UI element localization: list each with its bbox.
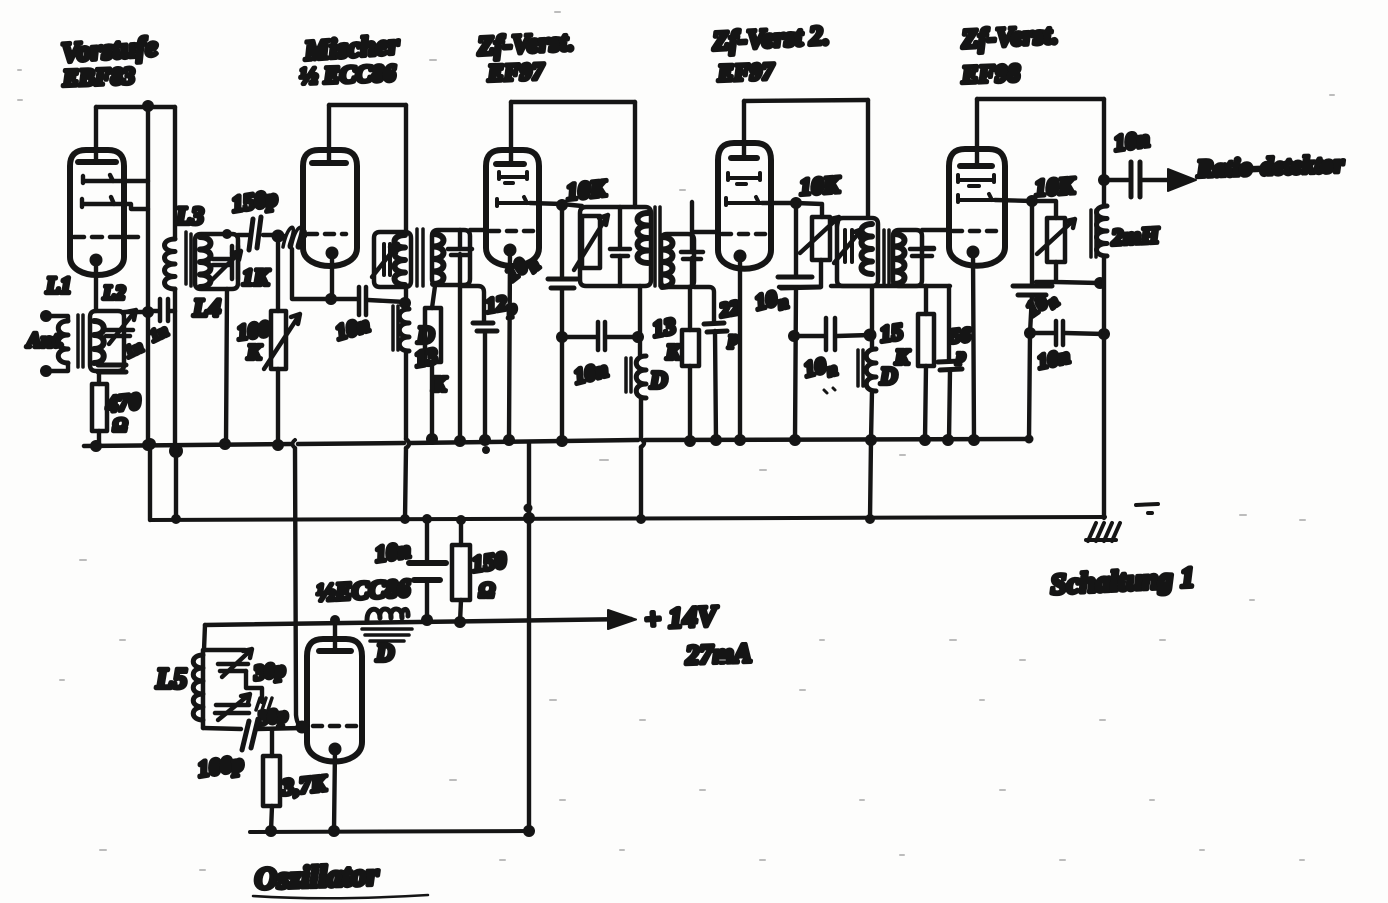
node 10n row left junction V5 [1024,327,1036,339]
V1 top supply wire [96,105,175,109]
wire screen bypass lower V5 [1030,295,1032,333]
V2 plate bar [312,160,346,166]
node IFT2 bottom 10n junction [638,336,640,338]
node V4 cathode bus junction [734,434,746,446]
wire IFT2 primary bottom [638,286,642,356]
node 10n row right junction V5 [1098,328,1110,340]
wire osc ground drop x529 [527,443,531,831]
capacitor 10n output plates [1131,162,1140,197]
node 10n row right junction V4 [864,329,877,342]
svg-text:Zf-Verst 2.: Zf-Verst 2. [711,20,830,56]
grid stopper coil squiggle [283,227,305,248]
node bus junction x176 big [169,444,183,458]
IFT2 primary box [580,207,651,286]
resistor 13K-2 [682,330,699,366]
ink dots under label [824,388,835,393]
svg-text:150p: 150p [230,185,279,217]
wire antenna lower lead [46,363,68,371]
node L4 box top [222,229,232,239]
IFT2 primary trimmer plates [610,249,630,256]
wire 10n row [562,335,638,339]
svg-text:L5: L5 [155,664,187,695]
antenna terminal upper [40,310,52,322]
node link x405 bus2 [400,514,410,524]
wire V1 cathode down [94,260,98,311]
IFT2 primary coil [638,213,649,263]
V3 grid3 marks [497,197,530,206]
V1 diode plate 2 [82,197,114,207]
V5 grid2 marks [958,175,994,186]
node 10n row left junction V4 [788,330,800,342]
wire diode 1 to bus [113,179,148,183]
svg-text:Zf-Verst.: Zf-Verst. [476,26,575,61]
capacitor 10n osc feed [425,519,429,561]
wire hop over bus1 x641 [641,439,644,447]
V4 cathode dot [734,250,747,263]
svg-text:1K: 1K [242,265,271,290]
node screen junction V4 [790,197,802,209]
capacitor 10n osc plates [409,563,446,580]
V2 cathode dashed line [308,232,346,237]
tube V3 EF97 envelope [486,150,539,266]
node secondary bottom bus junction [454,435,466,447]
node 10n osc rail junction [421,614,433,626]
V4 plate bar [731,155,757,161]
choke D3 [866,349,876,391]
capacitor 10n screen V3 plates [548,279,577,288]
resistor 3.7K [263,756,280,806]
wire cap to resistor [97,372,101,384]
IFT2 secondary cap plates [681,252,703,259]
V2 cathode dot [326,247,339,260]
wire bus1 to bus2 x641 [639,447,643,519]
grid input wire from L4 [238,233,275,237]
V4 cathode dashed line [722,232,766,237]
svg-text:13: 13 [413,343,440,372]
wire antenna upper lead [46,316,68,321]
IFT1 secondary box [432,230,470,285]
node 3.7K bottom junction [265,825,277,837]
node L4 bus junction [219,438,231,450]
wire anode line x175 upper [173,107,177,239]
svg-text:Oszillator: Oszillator [254,857,380,896]
svg-text:K: K [894,345,911,369]
wire resistor 470 to bus [97,431,101,446]
node 56p bus junction [942,434,954,446]
V1 cathode dot [90,254,103,267]
svg-text:10K: 10K [799,172,843,201]
trimmer 30p-1 plates [218,664,248,671]
wire 10n row V4 [794,335,870,336]
wire IFT1 secondary bottom to bus [458,285,462,441]
wire choke D3 drop [870,286,874,348]
tube V4 EF97 envelope [718,143,771,269]
inductor L1 [58,321,68,363]
choke D osc on rail [367,609,408,620]
wire screen bypass drop [560,205,564,278]
IFT3 primary box [837,218,878,286]
V6 anode lead [333,620,337,651]
V5 cathode dashed line [953,229,999,234]
svg-text:27mA: 27mA [684,638,752,670]
V3 cathode dashed line [490,229,534,234]
wire 13K feed [432,286,435,308]
choke D mischer core bars [393,306,398,350]
wire bus1 to bus2 x871 [870,440,871,519]
capacitor 10n mischer plates [359,287,366,315]
wire diode bus x148 vertical [146,106,150,444]
V3 anode lead [509,102,513,164]
node 12p below-bus dot [482,446,490,454]
V4 grid3 marks [726,197,762,205]
wire 13K-2 to bus [688,366,692,442]
output line x1104 lower [1102,334,1106,518]
wire screen bypass drop V5 [1030,201,1034,285]
IFT2 primary trimmer stub [618,207,622,286]
resistor 10K V3 [582,216,600,268]
node grid row junction [142,306,154,318]
rail corner to L5 [204,625,205,650]
node link x870 bus2 [865,514,875,524]
wire 56p feed [947,286,951,360]
wire IFT1 primary bottom [404,287,408,308]
capacitor 1n (to anode line) plates [160,299,168,321]
svg-text:30p: 30p [256,704,290,730]
V6 cathode dot [329,743,342,756]
IFT3 secondary cap stub [922,246,934,250]
choke D2 core bars [626,358,631,392]
output line x1104 upper [1102,99,1106,206]
svg-text:D: D [649,368,667,394]
wire box bottom to 12p [460,286,484,322]
wire bus1-bus2 link x176 [174,446,178,519]
svg-text:EF97: EF97 [486,59,545,87]
node 15K bus junction [919,434,931,446]
svg-text:10n: 10n [1021,284,1062,324]
wire 3.7K to bottom [271,806,272,831]
tube V6 ECC86 osc envelope [307,639,362,762]
wire hop over bus1 x406 [406,439,409,448]
V3 grid2 marks [499,172,527,183]
wire cathode row to cap [331,299,405,302]
IFT1 primary coil [395,235,406,285]
svg-text:½ ECC86: ½ ECC86 [299,61,396,90]
IFT1 primary trimmer arrow [372,244,398,277]
svg-text:Vorstufe: Vorstufe [60,31,158,69]
svg-text:K: K [246,340,263,364]
capacitor 100p plates [242,719,258,750]
node x529 bottom junction [523,825,535,837]
IFT2 core bars [655,207,660,286]
svg-text:L4: L4 [192,295,221,322]
node link x641 bus2 [636,514,646,524]
wire 12p to bus [483,331,487,441]
svg-text:D: D [375,640,394,667]
node 12p bus junction [479,434,491,446]
wire 13K-2 feed [688,287,692,330]
wire choke D2 to bus1 [639,398,643,439]
wire hop over bus1 x294 [293,440,296,448]
wire 15K feed [924,286,928,314]
svg-text:470: 470 [104,388,142,417]
IFT3 secondary cap plates [910,249,934,256]
V1 anode lead wire [94,107,98,162]
wire 15K to bus [925,366,926,440]
wire V2 cathode down [330,253,334,299]
capacitor 10n screen V4 plates [778,277,820,288]
variable capacitor arrow [109,310,136,344]
IFT3 primary coil [862,224,873,274]
svg-text:Ratio-detektor: Ratio-detektor [1195,151,1344,183]
V5 top supply wire [977,97,1104,101]
L1/L2 core bars [78,315,83,367]
wire IFT bottom rail [831,284,950,288]
choke D3 core bars [858,350,863,386]
node link x150 top [144,438,156,450]
osc tank box L5 [203,650,245,728]
wire bus2 ground line [150,517,1105,520]
wire osc grid row [203,728,302,729]
svg-text:30p: 30p [251,657,287,685]
L4 trimmer plates [213,259,229,265]
wire anode drop x406 [404,105,408,232]
V5 grid3 marks [958,194,995,202]
trimmer 30p-2 plates [215,705,249,713]
node 13K-2 bus junction [684,435,696,447]
Oszillator underline [253,895,428,898]
V1 diode plate 1 [83,175,113,183]
IFT1 primary box [374,232,411,287]
wire screen bypass to bus [560,288,564,441]
V3 plate bar [496,161,524,167]
choke D2 [636,356,646,398]
node 10n row left junction [556,331,568,343]
capacitor 10n coupling V3 plates [598,322,605,350]
capacitor 12p plates [473,323,497,331]
tube V5 EF98 envelope [949,149,1005,266]
wire V5 screen out [995,200,1056,218]
svg-text:10n: 10n [801,350,839,386]
V4 anode lead [742,101,746,158]
node screen junction V5 [1026,195,1038,207]
wire box bottom to 22p [694,287,714,322]
svg-text:10K: 10K [565,176,609,206]
IFT2 secondary cap stub [690,202,694,287]
capacitor 10n coupling V5 plates [1056,321,1063,345]
wire anode line x175 lower [173,289,177,446]
svg-text:Ω: Ω [113,415,127,436]
V4 top supply wire [744,100,868,101]
wire bus1 AGC line [84,439,1029,446]
node link x176 bus2 [171,514,181,524]
IFT1 core bars [417,229,423,286]
rail arrow head [608,610,636,629]
resistor 470 Ohm [92,384,107,431]
V6 plate bar [319,648,351,654]
capacitor 10n screen V5 plates [1013,286,1052,295]
svg-text:10n: 10n [1112,126,1151,156]
node 150 rail junction [454,616,466,628]
svg-text:2mH: 2mH [1110,222,1161,250]
wire 1n to anode line [148,309,175,313]
resistor 100K [271,311,286,369]
IFT3 primary trimmer bars [845,230,852,262]
capacitor 10n coupling V4 plates [826,318,835,350]
resistor 10K V5 arrow [1037,219,1075,254]
wire V4 screen out [762,203,822,217]
node osc grid junction [296,721,309,734]
output line x1104 middle [1102,258,1106,334]
wire diode 2 to bus [114,204,148,209]
svg-text:EBF83: EBF83 [61,63,135,92]
wire V4 cathode to bus [738,256,742,441]
wire squiggle to tube [278,234,305,238]
IFT2 secondary coil [662,237,673,287]
variable capacitor C-tune plates [103,330,133,336]
wire V3 cathode to bus [509,250,510,440]
V2 anode lead [327,105,331,163]
wire choke D3 to bus1 [871,391,872,440]
wire IFT3 secondary to V5 grid [922,228,949,232]
svg-text:Ω: Ω [479,578,495,602]
L4 trimmer bars [232,246,238,279]
wire bus1-bus2 link x150 [148,443,152,520]
node x529 bus2 blob [524,504,533,513]
wire 13K to bus [430,362,434,440]
node 10K to output junction [1094,277,1106,289]
ground symbol hatching [1086,523,1120,541]
svg-text:p: p [727,328,738,348]
tube V1 EBF83 envelope [70,150,124,275]
node choke D3 bus1 junction [865,434,877,446]
wire screen bypass drop V4 [794,203,798,276]
svg-text:EF97: EF97 [716,59,775,87]
svg-text:100p: 100p [196,750,245,782]
node V6 anode rail junction [330,615,340,625]
svg-text:3,7K: 3,7K [280,770,329,800]
node V6 cathode bottom junction [328,825,340,837]
L4 trimmer arrow [211,251,241,281]
wire trimmer link [246,671,262,702]
IFT3 secondary box [893,230,922,286]
choke 2mH [1097,206,1108,256]
node screen bus junction [556,435,568,447]
svg-text:15: 15 [878,319,904,347]
wire bus1 riser x1029 [1029,333,1030,440]
wire anode drop x868 [866,100,870,218]
wire 22p to bus [715,331,716,441]
node 100K bus junction [272,439,284,451]
svg-text:L2: L2 [102,282,125,304]
node IFT1 bottom junction [399,297,411,309]
svg-text:p: p [955,346,966,365]
wire 10n osc bottom [425,580,429,620]
wire anode drop x635 [633,102,637,207]
svg-text:L1: L1 [45,273,72,298]
capacitor 22p plates [704,323,727,332]
wire output to arrow [1141,178,1190,182]
inductor L5 [193,655,203,720]
wire output tap [1104,178,1128,182]
wire osc feed x295 [295,448,302,727]
wire 10n row V5 [1030,333,1104,334]
capacitor 150p plates [249,217,261,250]
V3 top supply wire [511,100,635,104]
svg-text:150: 150 [470,547,508,577]
IFT1 primary trimmer bars [384,244,390,275]
svg-text:10n: 10n [373,537,412,567]
IFT1 secondary cap plates [448,249,472,255]
choke 2mH core bars [1091,210,1096,257]
node 22p bus junction [710,434,722,446]
node grid junction [272,230,285,243]
V1 cathode dashed line [74,235,144,240]
trimmer 30p-1 arrow [222,649,252,677]
node 10n osc top [422,514,432,524]
V6 cathode dashed line [313,724,356,729]
ground reference dash mark [1136,504,1158,513]
wire +14V rail [205,619,631,625]
L3 core bars [186,232,191,286]
trimmer 30p-2 hatch [256,698,272,710]
wire cathode row left stub [292,249,331,299]
trimmer 30p-2 arrow [218,694,250,720]
resistor 150 Ohm [452,545,470,600]
V5 anode lead [975,99,979,166]
resistor 10K V4 arrow [800,217,839,253]
wire IFT2 secondary to V4 grid [694,230,718,234]
node V1 top junction [142,100,154,112]
IFT2 secondary box [661,234,694,287]
resistor 13K [425,308,441,362]
node cathode row junction [325,293,337,305]
V5 plate bar [960,163,992,169]
wire 10K V5 bottom [1036,262,1099,283]
tuned circuit box L2 [90,311,124,371]
capacitor 1n (cathode) plates [98,365,126,372]
resistor 10K V5 [1047,218,1065,262]
svg-text:10n: 10n [1035,344,1072,374]
wire 150 Ohm bottom [460,600,461,622]
wire choke to bus1 [404,351,408,439]
wire osc bottom return [250,831,529,832]
svg-text:½ECC86: ½ECC86 [316,575,412,607]
node screen bus junction V4 [789,434,801,446]
inductor L3 [165,239,176,289]
node screen junction [556,199,568,211]
wire V5 cathode to bus [973,252,974,440]
node 13K bus junction [426,433,438,445]
svg-text:10n: 10n [571,356,610,389]
svg-text:EF98: EF98 [960,60,1021,89]
choke D osc core lines [362,629,412,641]
wire grid row left [124,310,148,314]
IFT3 core bars [884,230,889,286]
tuned box L4 [195,234,238,289]
choke D mischer [399,309,409,351]
V4 grid2 marks [728,173,760,184]
wire V3 screen out [530,203,582,206]
svg-text:1n: 1n [147,321,171,346]
wire IFT1 secondary to V3 grid [470,228,487,232]
node V5 cathode bus junction [968,434,980,446]
wire 100K feed [276,236,280,311]
resistor 15K [918,314,934,366]
node x529 bus2 junction [523,512,535,524]
node 150 top junction [456,515,466,525]
antenna terminal lower [40,365,52,377]
resistor 10K arrow [574,215,608,270]
